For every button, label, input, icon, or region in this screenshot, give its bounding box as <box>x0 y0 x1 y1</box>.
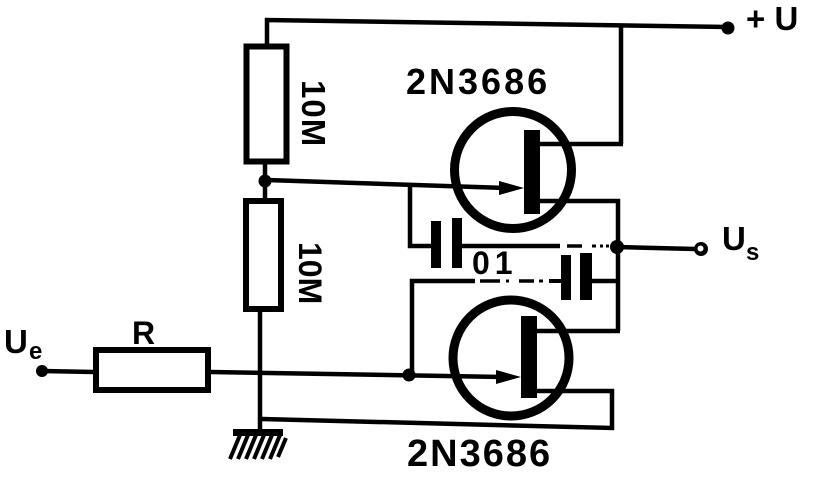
wire Ue to R <box>42 371 94 372</box>
svg-text:+ U: + U <box>746 0 798 37</box>
wire Q1 drain to +U branch <box>538 142 623 147</box>
label 2N3686 (Q1) <box>406 61 550 102</box>
terminal Us (open circle) <box>694 242 708 256</box>
node output junction dot <box>610 240 624 254</box>
svg-text:2N3686: 2N3686 <box>406 61 550 102</box>
wire gate branch down to C1 <box>410 184 431 246</box>
label Ue <box>4 323 42 365</box>
capacitor C2 right plate <box>580 253 592 300</box>
wire Q2 gate branch up to C2 (partly faded) <box>412 281 561 375</box>
svg-text:10M: 10M <box>292 242 328 304</box>
terminal Ue (dot) <box>36 365 48 377</box>
wire Q2 drain to output node <box>537 329 620 334</box>
node Q2 gate junction dot <box>403 369 416 382</box>
svg-text:10M: 10M <box>295 80 332 147</box>
svg-text:s: s <box>746 239 759 266</box>
value label 10M (R1) <box>295 80 332 147</box>
wire R1 bottom to R2 top <box>263 163 268 198</box>
capacitor C1 left plate <box>431 221 441 268</box>
wire C2 right plate to output node <box>592 279 620 284</box>
Q1 gate arrow <box>499 181 524 195</box>
label 2N3686 (Q2) <box>407 433 552 475</box>
svg-text:01: 01 <box>472 245 518 281</box>
wire C1 right plate to output node (partly faded) <box>462 244 609 249</box>
resistor R <box>96 350 208 390</box>
transistor Q1 2N3686 circle <box>455 112 572 229</box>
node junction dot R1/R2/gate <box>259 175 272 188</box>
resistor R1 10M <box>247 47 287 162</box>
wire output to Us terminal <box>617 247 695 249</box>
resistor R2 10M <box>246 201 281 309</box>
wire R2 bottom to ground <box>258 312 263 431</box>
wire Q1 source to output node <box>538 201 618 331</box>
terminal +U (dot) <box>722 22 735 35</box>
svg-text:U: U <box>4 323 28 360</box>
label Us <box>722 220 759 266</box>
svg-text:R: R <box>132 315 155 351</box>
label R <box>132 315 155 351</box>
svg-text:e: e <box>29 338 42 365</box>
Q2 gate arrow <box>496 370 521 384</box>
wire Q2 source to ground return <box>262 391 612 428</box>
value label 10M (R2) <box>292 242 328 304</box>
label +U <box>746 0 798 37</box>
ground symbol <box>230 429 286 459</box>
svg-text:U: U <box>722 220 746 257</box>
wire top rail from R1 top to +U terminal <box>267 20 728 46</box>
value label 01 (C1) <box>472 245 518 281</box>
wire +U branch down to Q1 drain <box>619 24 624 144</box>
capacitor C1 right plate <box>452 218 462 268</box>
transistor Q2 2N3686 circle <box>453 300 569 416</box>
transistor Q2 channel bar <box>521 316 537 398</box>
transistor Q1 channel bar <box>524 130 540 214</box>
svg-text:2N3686: 2N3686 <box>407 433 552 475</box>
wire Q1 gate line <box>267 180 506 188</box>
wire Q2 gate line <box>211 372 503 377</box>
capacitor C2 left plate <box>561 255 571 300</box>
